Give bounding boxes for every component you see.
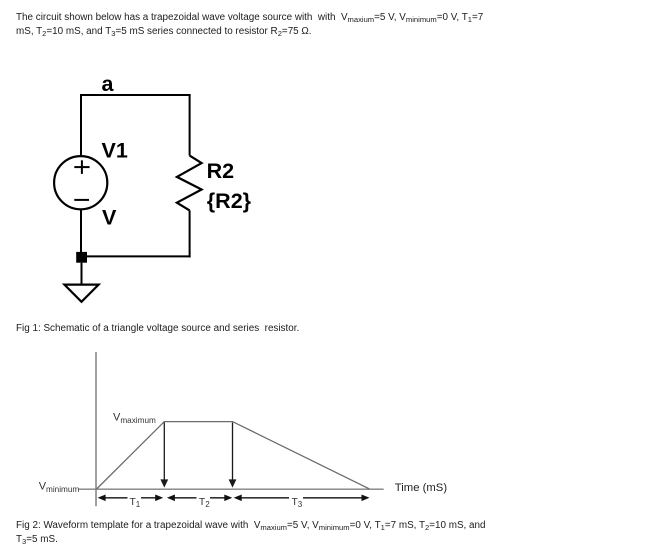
x-axis <box>79 488 384 490</box>
svg-text:a: a <box>102 72 115 96</box>
down arrow at T2/T3 boundary <box>229 423 237 488</box>
T2 interval double arrow <box>167 495 232 502</box>
label T1 <box>130 497 141 509</box>
svg-text:R2: R2 <box>207 159 235 183</box>
svg-text:Vminimum: Vminimum <box>39 480 80 494</box>
wire top-right vertical <box>189 94 191 156</box>
T3 interval double arrow <box>234 495 370 502</box>
node a <box>102 72 115 96</box>
svg-text:T2: T2 <box>199 497 210 509</box>
label V <box>102 206 117 230</box>
wire bottom horizontal <box>80 255 191 257</box>
trapezoid waveform <box>97 422 370 489</box>
label T3 <box>292 497 303 509</box>
problem statement paragraph <box>16 11 483 39</box>
resistor R2 <box>177 156 202 211</box>
label Vminimum <box>39 480 80 494</box>
y-axis <box>95 352 97 506</box>
label V1 <box>102 139 128 163</box>
label T2 <box>199 497 210 509</box>
svg-text:V1: V1 <box>102 139 128 163</box>
svg-text:{R2}: {R2} <box>207 189 252 213</box>
wire right lower vertical <box>189 210 191 257</box>
label R2 <box>207 159 235 183</box>
label Vmaximum <box>113 411 156 425</box>
wire top-left vertical <box>80 94 82 156</box>
svg-text:Time (mS): Time (mS) <box>395 482 448 494</box>
junction square node <box>76 252 87 263</box>
svg-text:V: V <box>102 206 117 230</box>
svg-text:T1: T1 <box>130 497 141 509</box>
ground <box>64 263 98 302</box>
down arrow at T1/T2 boundary <box>160 423 168 488</box>
wire left lower vertical <box>80 209 82 252</box>
voltage source V1 <box>54 156 107 209</box>
label Time (mS) <box>395 482 448 494</box>
svg-text:Vmaximum: Vmaximum <box>113 411 156 425</box>
svg-text:T3: T3 <box>292 497 303 509</box>
waveform figure <box>39 352 448 509</box>
wire top horizontal <box>80 94 191 96</box>
Fig 1 caption <box>16 322 299 336</box>
Fig 2 caption <box>16 519 486 547</box>
T1 interval double arrow <box>98 495 164 502</box>
value {R2} <box>207 189 252 213</box>
